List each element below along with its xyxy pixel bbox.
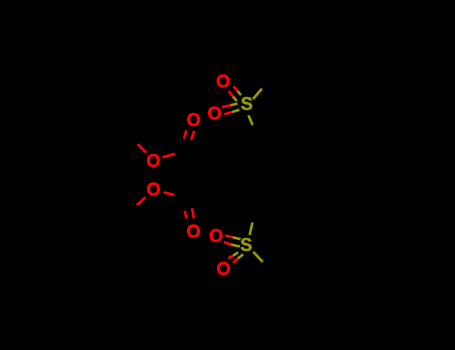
bond S1=O2 double bond — [222, 104, 240, 115]
atom O4 (S2 lower-left oxygen) — [216, 259, 230, 279]
svg-text:S: S — [240, 235, 252, 255]
svg-text:O: O — [186, 222, 200, 242]
bond O7-C carbonyl (red half, right) — [164, 192, 175, 195]
bond O6-C carbonyl (red half, right) — [163, 154, 175, 157]
atom O6 (ester oxygen, top ester) — [146, 151, 160, 171]
bond S2=O4 double bond — [228, 252, 243, 262]
atom O3 (S2 upper-left oxygen) — [209, 226, 223, 246]
bond S2=O3 double bond — [224, 236, 241, 247]
bond C=O8 double bond (red halves) — [185, 208, 194, 218]
svg-text:S: S — [241, 94, 253, 114]
svg-text:O: O — [146, 151, 160, 171]
atom O1 (S1 upper oxygen) — [216, 72, 230, 92]
bond S1-CH2 (olive half, down) — [248, 115, 252, 125]
bond S2-CH2 (olive half, up) — [250, 223, 253, 236]
bond O6-CH2 (red half, up-left) — [138, 144, 147, 153]
atom O7 (ester oxygen, bottom ester) — [146, 179, 160, 199]
svg-text:O: O — [146, 179, 160, 199]
svg-text:O: O — [209, 226, 223, 246]
svg-text:O: O — [216, 72, 230, 92]
svg-text:O: O — [187, 110, 201, 130]
atom O5 (carbonyl oxygen, top ester) — [187, 110, 201, 130]
bond S1=O1 double bond — [229, 86, 241, 101]
svg-text:O: O — [207, 104, 221, 124]
bond S1-phenyl (olive half, up-right) — [253, 89, 262, 99]
atom S2 — [240, 235, 252, 255]
atom O2 (S1 left oxygen) — [207, 104, 221, 124]
atom O8 (carbonyl oxygen, bottom ester) — [186, 222, 200, 242]
svg-text:O: O — [216, 259, 230, 279]
bond S2-phenyl (olive half, down-right) — [253, 252, 263, 262]
bond C=O5 double bond (red halves) — [184, 130, 194, 140]
bond O7-CH2 (red half, down-left) — [137, 197, 146, 205]
atom S1 — [241, 94, 253, 114]
